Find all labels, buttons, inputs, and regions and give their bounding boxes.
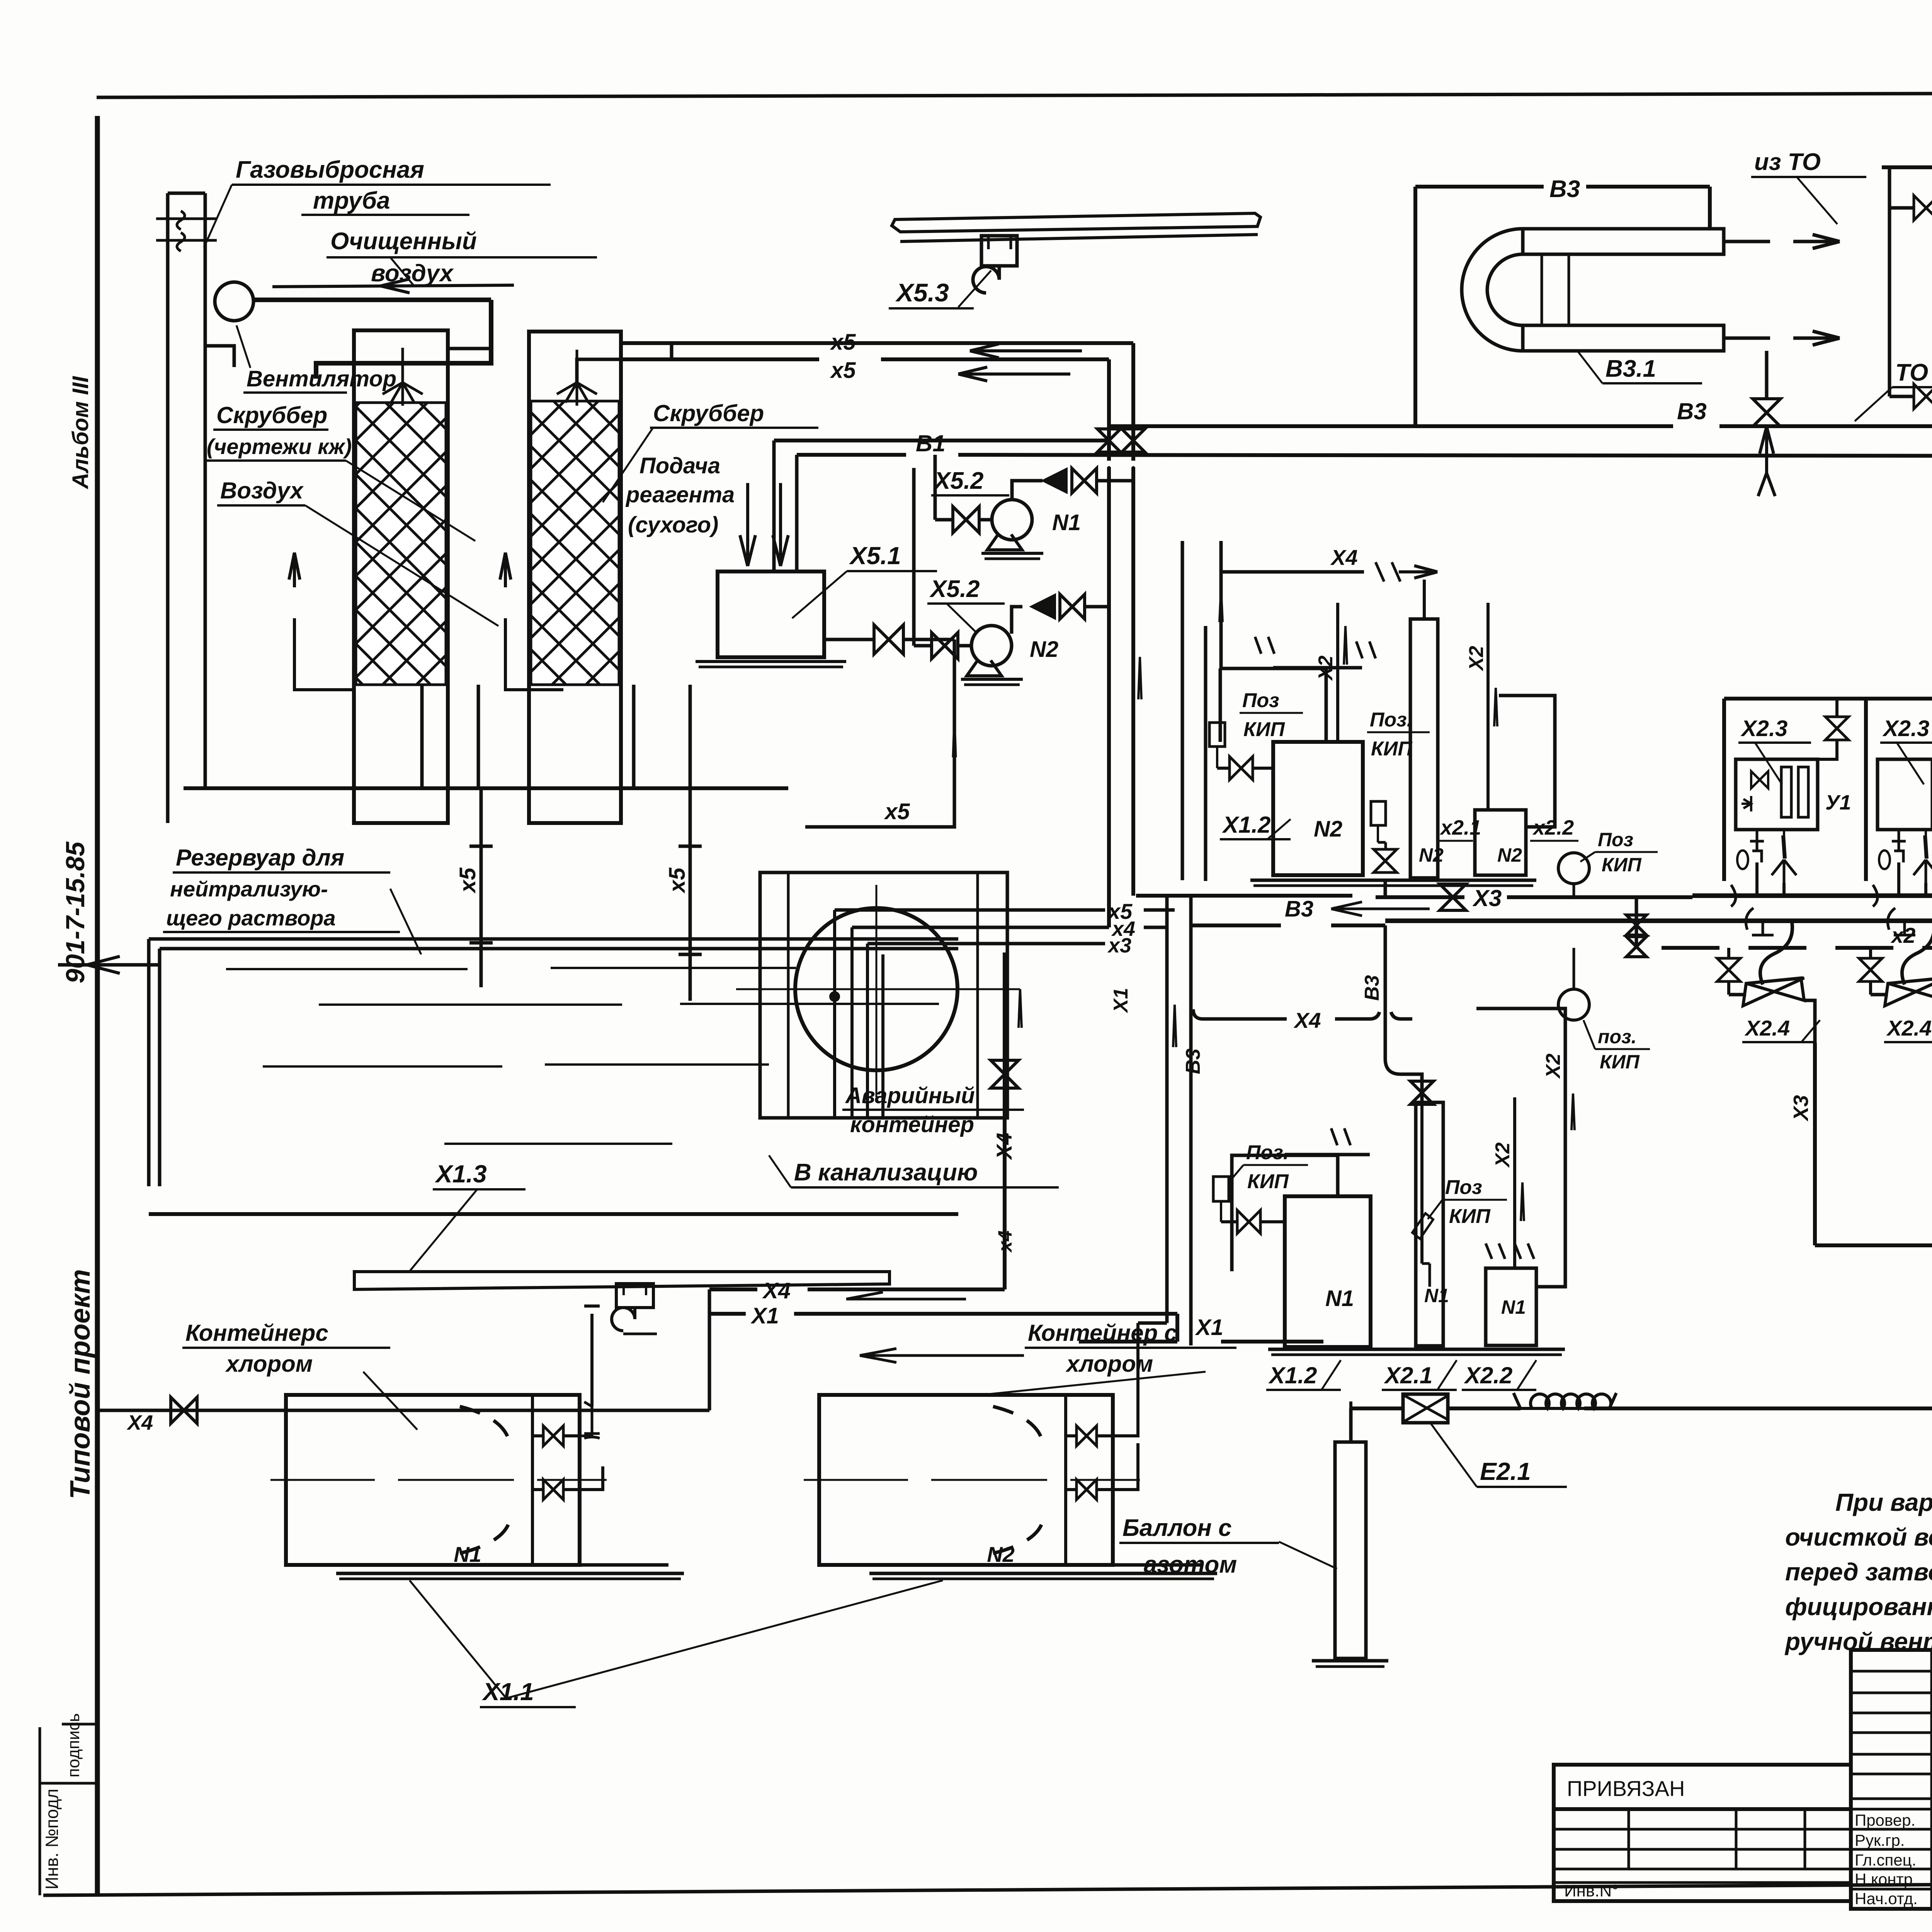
B3 drop jog to evaporator column bbox=[1385, 1016, 1422, 1102]
X4 elbow from riser bbox=[1193, 1009, 1203, 1019]
X1 step to right bbox=[1040, 1314, 1177, 1342]
svg-text:перед затворным баком (поз Х5.: перед затворным баком (поз Х5.1) вместо … bbox=[1785, 1558, 1932, 1586]
svg-text:Баллон с: Баллон с bbox=[1122, 1515, 1231, 1541]
leader container1 bbox=[363, 1372, 417, 1430]
svg-text:N1: N1 bbox=[1424, 1285, 1449, 1306]
ejector E2.1 bbox=[1403, 1394, 1448, 1423]
svg-text:х5: х5 bbox=[884, 799, 910, 824]
valve on X4 riser bbox=[991, 1060, 1019, 1088]
leader to stack bbox=[204, 185, 232, 247]
svg-text:Х2.2: Х2.2 bbox=[1464, 1362, 1512, 1388]
N1 suction from B1 riser bbox=[934, 453, 937, 456]
monorail beam X1.3 bbox=[354, 1272, 889, 1289]
container1 connection to X4 bbox=[584, 1289, 600, 1342]
crane beam X5.3 bbox=[892, 213, 1260, 232]
junction dot bbox=[829, 991, 840, 1002]
inlet line into tank from left bbox=[58, 963, 160, 967]
svg-text:х5: х5 bbox=[455, 867, 480, 894]
X3 to X2 bypass valves bbox=[1635, 896, 1638, 948]
pipe X2 manifold bbox=[1385, 918, 1932, 923]
svg-text:N1: N1 bbox=[1052, 510, 1081, 535]
X1 flow arrow bbox=[846, 1292, 966, 1299]
svg-text:Х2: Х2 bbox=[1465, 646, 1488, 672]
container N2 dashed siphons bbox=[993, 1406, 1043, 1445]
vozdukh leader bbox=[305, 505, 498, 626]
container group to x4 line bbox=[590, 1342, 594, 1368]
evaporator N2 supply loop top bbox=[1220, 668, 1326, 742]
border frame top line bbox=[97, 92, 1932, 97]
collector line unit 1 bbox=[1815, 1243, 1932, 1247]
chlorinator N2 outlet fittings bbox=[1892, 830, 1906, 862]
chlorinator X2.3 У1 tank bbox=[1736, 759, 1818, 830]
svg-text:Х2: Х2 bbox=[1542, 1053, 1565, 1079]
svg-text:Х2.1: Х2.1 bbox=[1384, 1362, 1432, 1388]
svg-text:х5: х5 bbox=[830, 330, 856, 355]
arrow down on pipe bbox=[953, 723, 956, 757]
svg-text:КИП: КИП bbox=[1371, 738, 1413, 760]
svg-text:Скруббер: Скруббер bbox=[216, 402, 327, 428]
svg-text:Х2.4: Х2.4 bbox=[1744, 1016, 1790, 1040]
crane trolley bbox=[981, 236, 1017, 266]
svg-text:N2: N2 bbox=[1030, 637, 1058, 662]
svg-text:Х1: Х1 bbox=[1110, 988, 1132, 1014]
air inlet riser scrubber2 bbox=[500, 553, 511, 587]
valve suction N1 bbox=[953, 507, 979, 533]
E2 lower horizontal bbox=[1584, 1406, 1932, 1410]
coil on E2 line bbox=[1514, 1393, 1532, 1408]
svg-text:Х1: Х1 bbox=[750, 1303, 779, 1328]
KIP instrument mid bbox=[1371, 801, 1386, 825]
x5 flow arrows bbox=[970, 344, 1082, 358]
svg-text:х5: х5 bbox=[830, 358, 856, 383]
X4 line top with break bbox=[1221, 570, 1364, 574]
svg-text:Х4: Х4 bbox=[126, 1411, 153, 1434]
pipe X3 manifold bbox=[1692, 893, 1932, 898]
svg-text:Скруббер: Скруббер bbox=[653, 400, 764, 426]
lower group baseline bbox=[1268, 1348, 1565, 1351]
X1.1 leaders to containers bbox=[410, 1580, 506, 1698]
pipe from tank X5.1 top to x5 risers bbox=[774, 439, 1109, 442]
unit row top header line bbox=[1724, 697, 1932, 701]
pipe x5 to tank bbox=[835, 908, 1105, 912]
riser flow arrows bbox=[1138, 657, 1141, 699]
fan circle bbox=[215, 282, 253, 321]
svg-text:Е2.1: Е2.1 bbox=[1480, 1458, 1531, 1485]
svg-text:N2: N2 bbox=[987, 1542, 1015, 1566]
X2.2 supply loop bbox=[1499, 696, 1555, 827]
B3 drop down bbox=[1384, 925, 1387, 1016]
X4 riser up bbox=[1003, 952, 1007, 1289]
neutralizing tank walls bbox=[149, 939, 160, 1186]
svg-text:В3: В3 bbox=[1549, 176, 1580, 202]
heat exchanger B3.1 upper tube bbox=[1523, 229, 1724, 254]
chlorinator X2.3 У1 vent valve bbox=[1825, 717, 1849, 740]
TO outflow arrow upper bbox=[1724, 235, 1840, 248]
container N1 header pipe bbox=[580, 1402, 600, 1438]
pump X5.2 N2 bbox=[971, 626, 1012, 666]
svg-text:Аварийный: Аварийный bbox=[845, 1083, 975, 1108]
stack wall lower segment bbox=[204, 377, 207, 788]
svg-text:азотом: азотом bbox=[1144, 1551, 1237, 1578]
container N1 centerline bbox=[270, 1479, 607, 1481]
x2 riser right bbox=[1486, 603, 1490, 810]
svg-text:хлором: хлором bbox=[225, 1351, 313, 1377]
reagent feed arrows into tank bbox=[740, 483, 755, 566]
svg-text:КИП: КИП bbox=[1247, 1170, 1289, 1193]
svg-text:КИП: КИП bbox=[1602, 854, 1642, 876]
left drain line with valve bbox=[97, 1409, 709, 1412]
svg-text:Газовыбросная: Газовыбросная bbox=[236, 156, 424, 183]
tank bottom bbox=[149, 1212, 958, 1216]
svg-text:Х2.4: Х2.4 bbox=[1886, 1016, 1932, 1040]
svg-text:Х5.2: Х5.2 bbox=[929, 576, 980, 602]
svg-text:Типовой проект: Типовой проект bbox=[65, 1269, 96, 1499]
svg-text:поз.: поз. bbox=[1598, 1026, 1637, 1048]
fan leader line bbox=[236, 325, 250, 368]
container N2 centerline bbox=[804, 1479, 1140, 1481]
scrubber 2 packing hatch bbox=[531, 401, 619, 685]
title block privyazan box bbox=[1554, 1765, 1851, 1809]
valve under B3.1 bbox=[1765, 351, 1769, 399]
container N1 valves bbox=[543, 1426, 563, 1446]
svg-text:КИП: КИП bbox=[1449, 1205, 1491, 1228]
svg-text:Х4: Х4 bbox=[1293, 1008, 1321, 1032]
KIP instrument bbox=[1209, 723, 1225, 747]
svg-text:Х5.2: Х5.2 bbox=[933, 468, 984, 494]
cleaned air arrow line bbox=[272, 285, 514, 287]
svg-text:Поз: Поз bbox=[1445, 1176, 1482, 1199]
X3 flow arrow bbox=[1331, 902, 1430, 916]
container N1 support base bbox=[350, 1563, 668, 1567]
X2.2 N1 supply elbow bbox=[1476, 1009, 1565, 1287]
svg-text:N1: N1 bbox=[454, 1542, 481, 1566]
svg-text:очисткой вентиляционного возду: очисткой вентиляционного воздуха на водо… bbox=[1785, 1523, 1932, 1551]
tank X5.1 base bbox=[696, 660, 846, 663]
gas exhaust stack column bbox=[166, 193, 170, 823]
riser pipes center bbox=[1165, 896, 1169, 1323]
svg-text:Воздух: Воздух bbox=[220, 478, 304, 503]
arrows on x4 riser bbox=[1019, 989, 1022, 1028]
svg-text:труба: труба bbox=[313, 187, 390, 214]
svg-text:х3: х3 bbox=[1107, 934, 1131, 957]
stack break symbol bbox=[156, 218, 217, 220]
scrubber 1 packing hatch bbox=[356, 403, 446, 685]
svg-text:Провер.: Провер. bbox=[1855, 1811, 1915, 1829]
svg-text:В1: В1 bbox=[916, 430, 946, 456]
x2 riser lower right bbox=[1513, 1097, 1516, 1268]
svg-text:Х2.3: Х2.3 bbox=[1740, 716, 1787, 741]
scrubber 1 skirt bbox=[420, 685, 424, 788]
svg-text:N2: N2 bbox=[1419, 844, 1444, 866]
svg-text:N1: N1 bbox=[1325, 1286, 1354, 1311]
svg-text:Контейнерс: Контейнерс bbox=[185, 1320, 328, 1346]
scrubber ground baseline bbox=[184, 786, 788, 790]
branch valve unit 2 bbox=[1859, 958, 1882, 981]
leader to bottle bbox=[1279, 1542, 1337, 1569]
X3 drop plain bbox=[1384, 880, 1387, 896]
svg-text:Инв. №подл: Инв. №подл bbox=[42, 1789, 62, 1889]
svg-text:Х2: Х2 bbox=[1315, 655, 1337, 681]
svg-text:(сухого): (сухого) bbox=[628, 512, 718, 537]
svg-text:реагента: реагента bbox=[625, 482, 735, 507]
X1 arrow lower bbox=[860, 1349, 1024, 1362]
svg-text:х2.2: х2.2 bbox=[1532, 816, 1574, 839]
svg-text:Подача: Подача bbox=[639, 453, 720, 478]
valve pair on x5 risers bbox=[1097, 429, 1121, 452]
air line scrubber2 top going right (x5 upper) bbox=[621, 341, 1131, 345]
leader skrubber2 bbox=[603, 428, 653, 502]
svg-text:хлором: хлором bbox=[1065, 1351, 1153, 1377]
container N2 header pipe bbox=[1113, 1323, 1138, 1436]
svg-text:нейтрализую-: нейтрализую- bbox=[170, 877, 328, 901]
chlorinator У1 outlet fittings bbox=[1750, 830, 1764, 862]
duct between scrubbers top bbox=[448, 300, 491, 348]
svg-text:Х1.2: Х1.2 bbox=[1268, 1362, 1317, 1388]
nitrogen bottle bbox=[1335, 1442, 1366, 1658]
svg-text:Очищенный: Очищенный bbox=[330, 228, 477, 255]
container N1 dashed siphons bbox=[460, 1406, 510, 1445]
chlorine container N2 body bbox=[819, 1395, 1113, 1565]
svg-text:901-7-15.85: 901-7-15.85 bbox=[61, 841, 90, 983]
branch valve unit 1 bbox=[1717, 958, 1740, 981]
scrubber 1 spray nozzle bbox=[383, 348, 423, 406]
svg-text:В канализацию: В канализацию bbox=[794, 1159, 978, 1186]
svg-text:Х5.3: Х5.3 bbox=[895, 278, 949, 307]
container centerlines bbox=[736, 988, 1020, 990]
box X2.2 N1 bbox=[1486, 1268, 1536, 1345]
heat exchanger B3.1 lower tube bbox=[1523, 325, 1724, 351]
B3.1 U-bend bbox=[1462, 229, 1523, 351]
tank leader bbox=[390, 889, 421, 954]
stub under X2 manifold unit bbox=[1762, 921, 1764, 935]
crane label leader bbox=[958, 270, 991, 307]
poz KIP diamond lower bbox=[1412, 1213, 1433, 1239]
svg-text:х2: х2 bbox=[1890, 923, 1915, 947]
scrubber 2 shell bbox=[529, 332, 621, 823]
break marks on pipe bbox=[1356, 641, 1376, 658]
S-pipe from X2 manifold to ejector unit 1 bbox=[1760, 921, 1792, 985]
svg-text:(чертежи кж): (чертежи кж) bbox=[207, 434, 352, 459]
container N2 riser link bbox=[1138, 1321, 1167, 1325]
svg-text:Рук.гр.: Рук.гр. bbox=[1855, 1831, 1905, 1849]
x2 riser left bbox=[1336, 603, 1339, 742]
break marks double bbox=[1486, 1243, 1534, 1259]
scrubber 2 spray nozzle bbox=[557, 350, 597, 406]
svg-text:Х3: Х3 bbox=[1472, 885, 1502, 911]
evaporator X1.2 N2 box bbox=[1273, 742, 1363, 875]
scrubber 2 skirt bbox=[632, 685, 636, 788]
unit U1 internals bbox=[1781, 767, 1791, 817]
svg-text:щего раствора: щего раствора bbox=[166, 906, 336, 930]
svg-text:Резервуар для: Резервуар для bbox=[176, 845, 344, 871]
duct from stack to fan bbox=[205, 346, 234, 367]
svg-text:из ТО: из ТО bbox=[1754, 149, 1821, 175]
check valve and valve on N1 discharge bbox=[1012, 481, 1043, 500]
tank water level lines bbox=[226, 968, 468, 970]
leader container2 bbox=[974, 1372, 1206, 1396]
scrubber2 inlet elbow from right bbox=[577, 343, 672, 383]
unit row cell borders bbox=[1722, 699, 1726, 881]
svg-text:N2: N2 bbox=[1314, 816, 1342, 842]
svg-text:В3: В3 bbox=[1361, 975, 1383, 1001]
emergency container drum circle bbox=[795, 908, 957, 1070]
svg-text:Х4: Х4 bbox=[992, 1133, 1016, 1161]
svg-text:Х4: Х4 bbox=[762, 1278, 791, 1303]
svg-text:Поз: Поз bbox=[1598, 829, 1633, 850]
box X2.2 N2 bbox=[1475, 810, 1526, 875]
ejector X2.4 unit 2 bbox=[1871, 993, 1888, 997]
svg-text:КИП: КИП bbox=[1600, 1051, 1640, 1073]
valve below instrument bbox=[1374, 849, 1397, 872]
chlorine container N1 body bbox=[286, 1395, 580, 1565]
valve into evaporator bbox=[1230, 757, 1253, 780]
wavy expansion joints on manifold bbox=[1731, 885, 1753, 930]
svg-text:Х1: Х1 bbox=[1195, 1315, 1223, 1340]
duct fan to scrubber1 bbox=[253, 298, 491, 302]
bottle ground bbox=[1312, 1659, 1388, 1663]
KIP gauge circle lower bbox=[1558, 989, 1589, 1020]
svg-text:Х3: Х3 bbox=[1789, 1095, 1813, 1122]
svg-text:N2: N2 bbox=[1497, 844, 1522, 866]
wavy expansion joints on manifold bbox=[1873, 885, 1895, 930]
monorail trolley bbox=[616, 1284, 653, 1308]
svg-text:фицированной задвижки предусма: фицированной задвижки предусматривается bbox=[1785, 1593, 1932, 1621]
border frame left line bbox=[95, 116, 100, 1895]
nitrogen bottle pipe down bbox=[1349, 1408, 1353, 1442]
KIP instrument lower bbox=[1213, 1177, 1229, 1201]
svg-text:В3.1: В3.1 bbox=[1605, 355, 1656, 382]
pump X5.2 N1 bbox=[992, 500, 1032, 540]
upper group baseline bbox=[1250, 879, 1536, 882]
column X2.1 N2 bbox=[1410, 619, 1438, 878]
pipe x5 lower bbox=[621, 357, 819, 361]
N2 valve pair bbox=[1914, 384, 1932, 409]
emergency container frame bbox=[760, 872, 1007, 1118]
margin stamp box lines bbox=[39, 1727, 41, 1895]
check valve and valve on N2 discharge bbox=[1012, 607, 1022, 634]
svg-text:Х1.3: Х1.3 bbox=[435, 1160, 487, 1188]
dashed X2 line bbox=[1662, 946, 1932, 950]
TO outflow arrow lower bbox=[1724, 331, 1840, 345]
drain drop from monorail area bbox=[708, 1289, 711, 1410]
pipe X3 main bbox=[1136, 894, 1352, 898]
column X2.1 N1 bbox=[1416, 1102, 1443, 1346]
svg-text:При варианте работы хлораторно: При варианте работы хлораторной с постоя… bbox=[1835, 1488, 1932, 1516]
break mark bbox=[1331, 1128, 1350, 1145]
kanalizatsiya leader bbox=[769, 1155, 791, 1187]
container N2 valves bbox=[1077, 1426, 1097, 1446]
supply arrow up into valve bbox=[1758, 427, 1775, 496]
pipe x3 to tank bbox=[867, 942, 1105, 946]
air inlet riser scrubber1 bbox=[289, 553, 300, 587]
chlorinator X2.3 N2 tank bbox=[1878, 759, 1932, 830]
svg-text:ПРИВЯЗАН: ПРИВЯЗАН bbox=[1567, 1776, 1685, 1801]
svg-text:В3: В3 bbox=[1677, 398, 1707, 424]
X1.3 leader bbox=[410, 1189, 477, 1271]
S-pipe from X2 manifold to ejector unit 2 bbox=[1902, 921, 1932, 985]
svg-text:N1: N1 bbox=[1501, 1296, 1526, 1318]
monorail hook bbox=[612, 1308, 635, 1331]
riser into column top bbox=[1420, 1105, 1423, 1264]
x5 pipe from tank down bbox=[835, 639, 954, 827]
title block left grid bbox=[1554, 1809, 1851, 1901]
svg-text:Вентилятор: Вентилятор bbox=[247, 366, 396, 391]
N1 supply loop bbox=[1232, 1155, 1338, 1271]
wavy crossing over B1 bbox=[1103, 463, 1139, 468]
leader skrubber1 bbox=[346, 461, 475, 541]
svg-text:ТО: ТО bbox=[1895, 359, 1928, 386]
svg-text:Поз.: Поз. bbox=[1370, 709, 1412, 731]
svg-text:Инв.N°: Инв.N° bbox=[1564, 1881, 1619, 1900]
tank X5.1 bbox=[718, 571, 824, 657]
svg-text:Гл.спец.: Гл.спец. bbox=[1855, 1851, 1916, 1869]
svg-text:Альбом III: Альбом III bbox=[68, 376, 93, 490]
valves between X3 and X2 near left bbox=[1440, 884, 1466, 910]
KIP gauge circle upper bbox=[1558, 853, 1589, 884]
svg-text:Поз: Поз bbox=[1242, 689, 1279, 712]
riser bundle into container bbox=[833, 910, 836, 1118]
svg-text:Х1.2: Х1.2 bbox=[1222, 812, 1270, 838]
evaporator X1.2 N1 box bbox=[1285, 1196, 1371, 1347]
svg-text:х5: х5 bbox=[665, 867, 690, 894]
svg-text:В3: В3 bbox=[1182, 1048, 1204, 1074]
svg-text:У1: У1 bbox=[1825, 791, 1851, 814]
svg-text:Х4: Х4 bbox=[1330, 545, 1358, 570]
svg-text:В3: В3 bbox=[1285, 896, 1313, 922]
valve on tank outlet bbox=[874, 625, 903, 654]
svg-text:КИП: КИП bbox=[1243, 718, 1285, 741]
valve into N1 evaporator bbox=[1237, 1210, 1260, 1233]
svg-text:Х1.1: Х1.1 bbox=[482, 1678, 534, 1706]
crane hook bbox=[973, 266, 999, 293]
pipe x4 to tank bbox=[852, 926, 1109, 929]
svg-text:подпись: подпись bbox=[64, 1713, 83, 1777]
svg-text:х2.1: х2.1 bbox=[1439, 816, 1481, 839]
valve suction N2 bbox=[932, 633, 958, 659]
chlorinator У1 drop to manifold bbox=[1755, 862, 1759, 896]
border frame bottom line bbox=[43, 1880, 1932, 1895]
x5 drop pipes into tank bbox=[480, 788, 483, 987]
container N2 support base bbox=[883, 1563, 1202, 1567]
svg-text:Поз.: Поз. bbox=[1246, 1141, 1289, 1164]
stub under X2 manifold unit bbox=[1903, 921, 1906, 935]
svg-text:Х5.1: Х5.1 bbox=[849, 542, 901, 570]
N1 valve pair bbox=[1914, 196, 1932, 220]
svg-text:Х2.3: Х2.3 bbox=[1882, 716, 1929, 741]
svg-text:х4: х4 bbox=[994, 1230, 1016, 1253]
drop pipe unit 1 bbox=[1813, 1043, 1817, 1245]
scrubber 1 shell bbox=[354, 330, 448, 823]
svg-text:Х2: Х2 bbox=[1492, 1142, 1514, 1168]
title block personnel table bbox=[1851, 1650, 1932, 1909]
ejector X2.4 unit 1 bbox=[1729, 993, 1746, 997]
chlorinator N2 drop to manifold bbox=[1897, 862, 1900, 896]
pipe from X2.2 down to E2 line bbox=[1349, 1401, 1352, 1408]
svg-text:Н.контр.: Н.контр. bbox=[1855, 1870, 1917, 1888]
svg-text:Нач.отд.: Нач.отд. bbox=[1855, 1889, 1918, 1908]
